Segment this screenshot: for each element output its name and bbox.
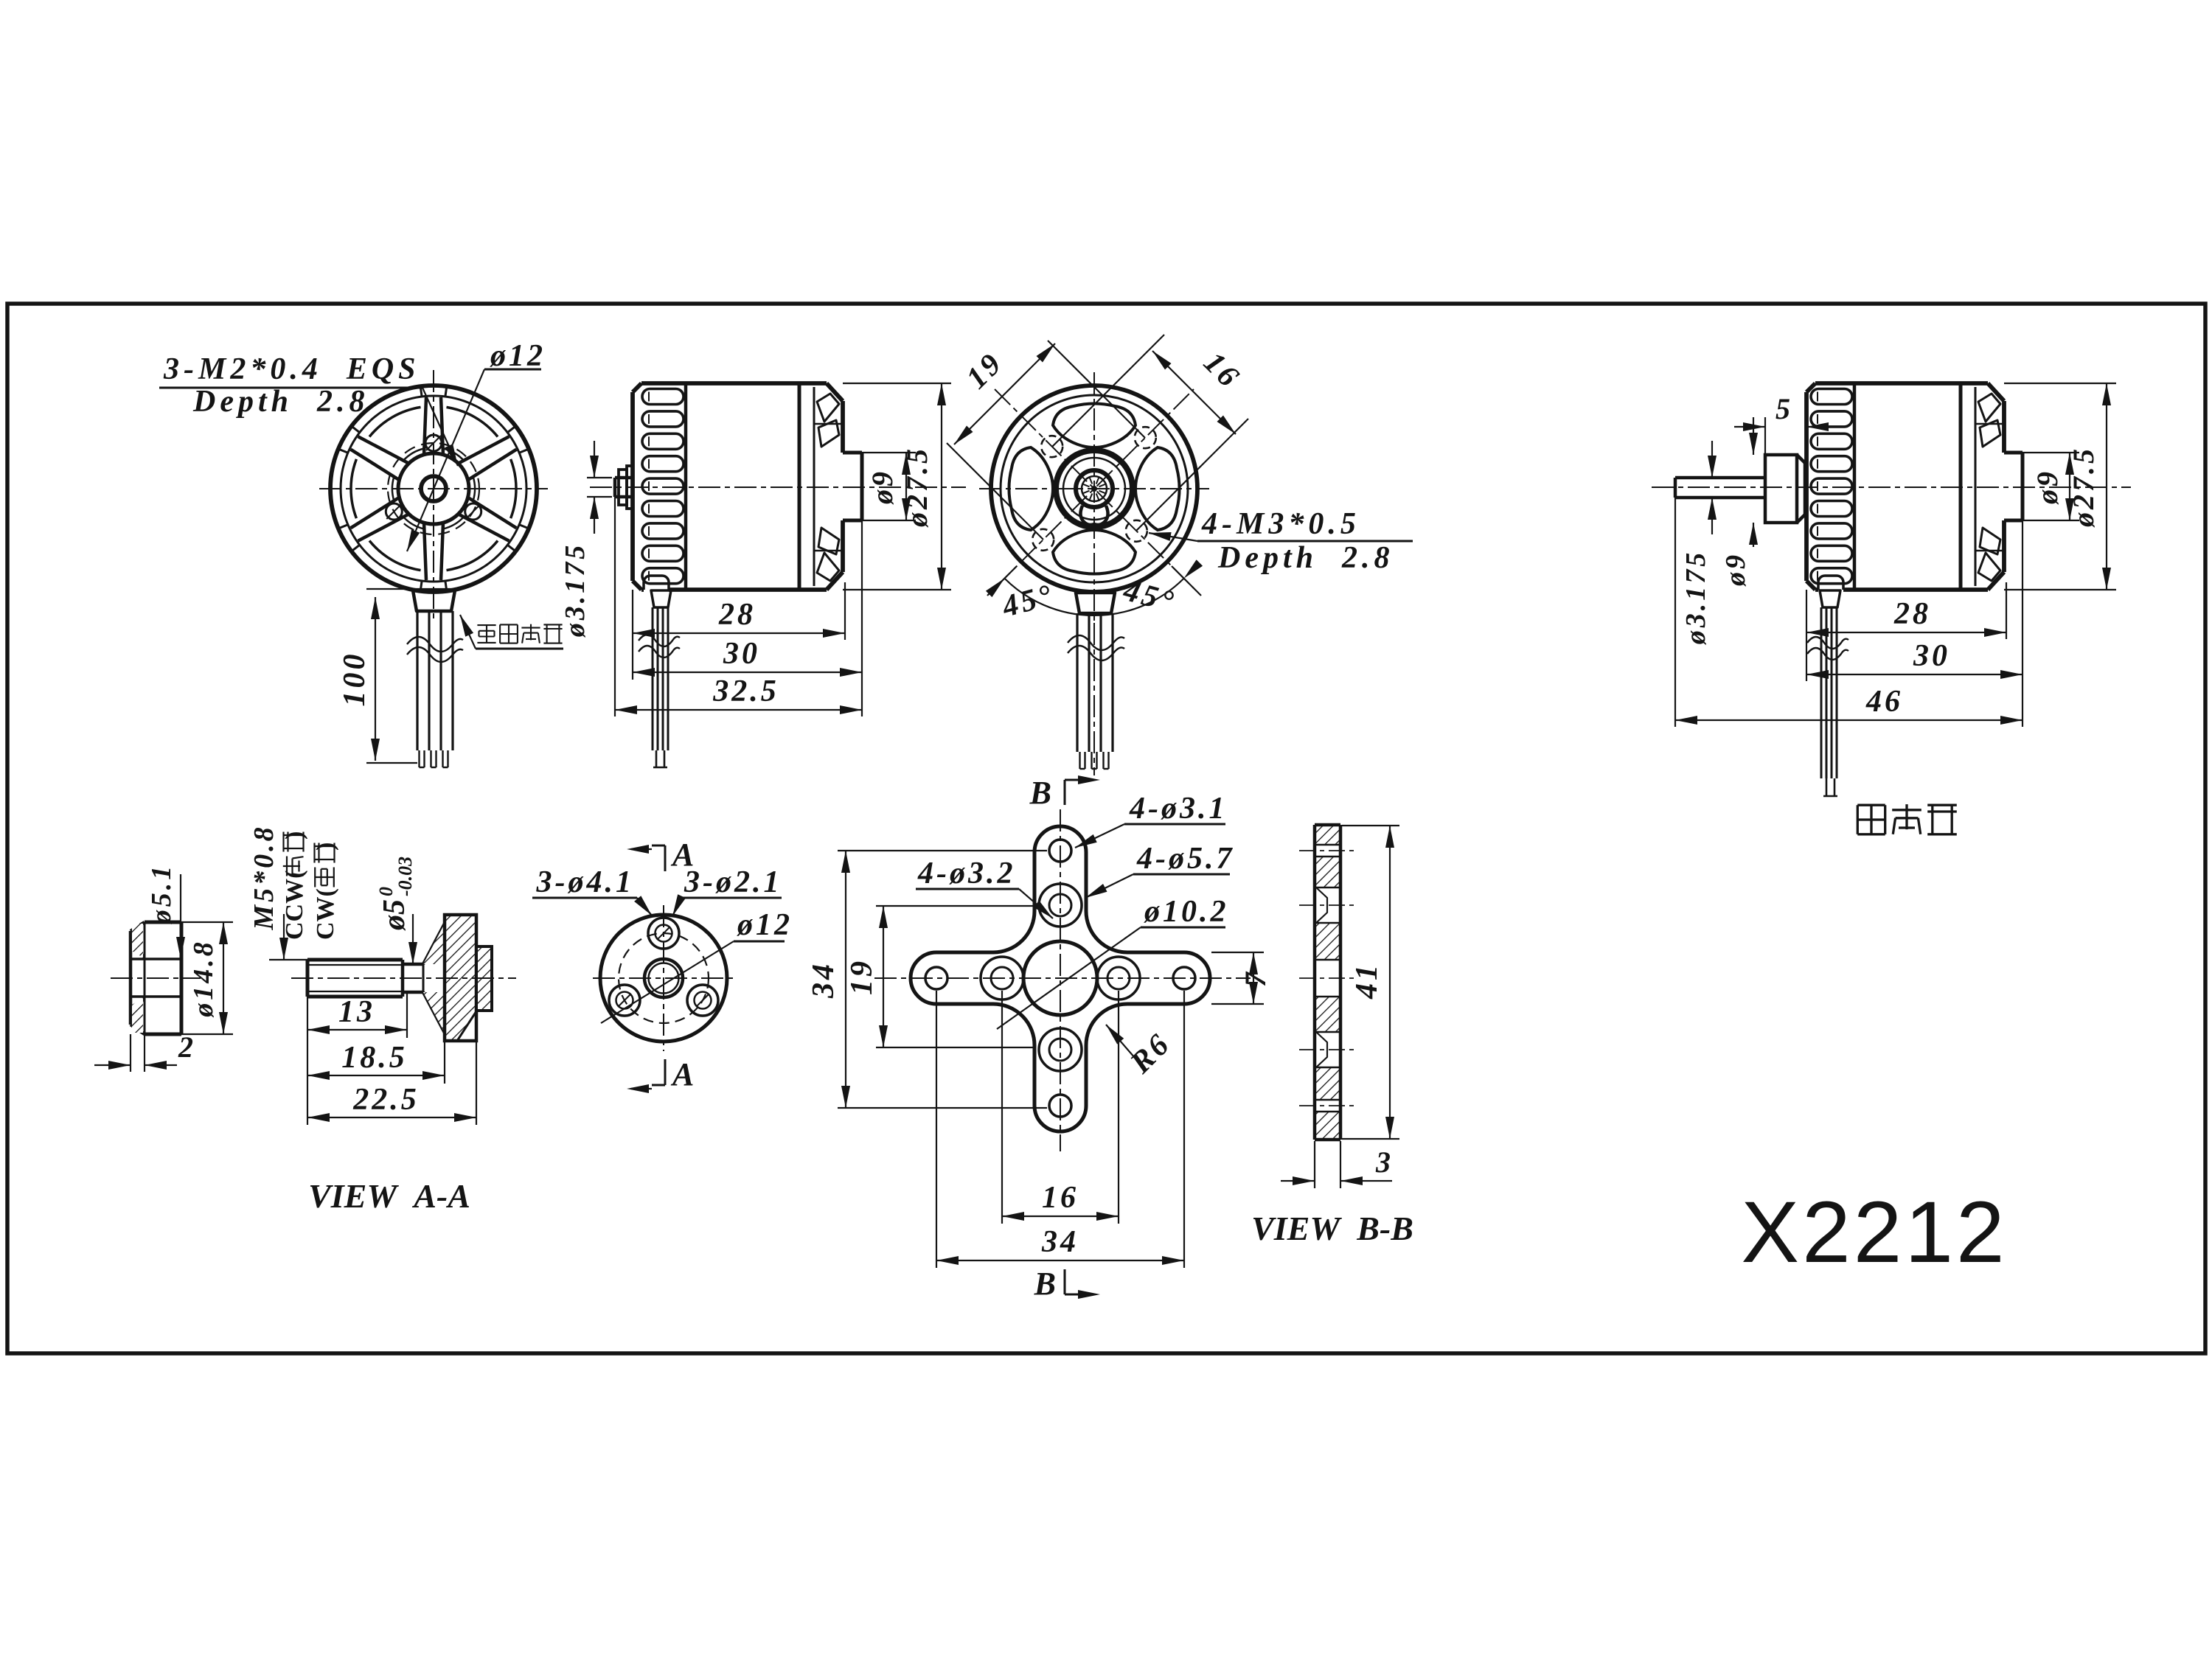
- svg-text:32.5: 32.5: [712, 674, 779, 708]
- X-mount section VIEW B-B strip: [1315, 825, 1340, 845]
- dimension diameter 14.8: [223, 922, 224, 1034]
- dimension 13 thread length: [307, 1029, 407, 1030]
- drawing border frame: [7, 304, 2205, 1353]
- side view vent slots: [642, 389, 684, 405]
- svg-text:3-ø2.1: 3-ø2.1: [684, 865, 782, 899]
- prop adapter flange face view: [600, 915, 727, 1042]
- side view rotor bell outline: [630, 392, 635, 581]
- rear view cooling openings: [1053, 404, 1135, 447]
- X-mount cross plate view: [911, 826, 1210, 1131]
- svg-text:41: 41: [1350, 962, 1384, 1000]
- dimension 7 arm width: [1211, 952, 1264, 953]
- side view center line: [590, 487, 966, 488]
- svg-text:VIEW A-A: VIEW A-A: [308, 1177, 470, 1215]
- section markers A-A: [652, 845, 665, 847]
- svg-text:19: 19: [845, 958, 879, 995]
- svg-text:ø14.8: ø14.8: [188, 939, 219, 1018]
- rear view wire bundle: [1076, 593, 1115, 613]
- dimension 5 collar length: [1764, 417, 1766, 455]
- svg-text:CCW(: CCW(: [281, 871, 308, 940]
- svg-text:ø5: ø5: [378, 899, 411, 931]
- dimension 30 rear view: [1806, 674, 2023, 675]
- dimension diameter 3.175 shaft: [587, 477, 612, 478]
- label heat-shrink sleeve (Chinese): [477, 624, 495, 626]
- svg-text:4-ø5.7: 4-ø5.7: [1136, 842, 1235, 876]
- svg-text:ø12: ø12: [490, 339, 546, 373]
- label M5*0.8 thread: [269, 959, 307, 960]
- rear view hub shaft and circlip: [1056, 450, 1133, 527]
- svg-text:CW(: CW(: [312, 888, 339, 940]
- svg-text:): ): [312, 843, 339, 851]
- front view spokes and rim slots: [441, 397, 443, 455]
- prop adapter section VIEW A-A: [307, 958, 403, 962]
- dimension diameter 5.1: [180, 874, 181, 959]
- dimension 22.5: [307, 1117, 476, 1118]
- svg-text:B: B: [1034, 1266, 1059, 1302]
- side view wire bundle: [651, 590, 671, 607]
- dimension 45 degree angles: [1004, 579, 1183, 615]
- dimension diameter 5 tolerance: [403, 963, 428, 965]
- front view center lines: [319, 488, 548, 489]
- svg-text:A: A: [670, 837, 697, 873]
- dimension 32.5: [615, 709, 862, 711]
- dimension 18.5: [307, 1075, 445, 1076]
- svg-text:Depth 2.8: Depth 2.8: [192, 385, 369, 419]
- svg-text:28: 28: [718, 598, 756, 632]
- dimension 100 wire length: [375, 597, 376, 761]
- front view rim opening arcs: [511, 459, 516, 518]
- side view rear cap heatsink: [827, 383, 843, 401]
- dimension 19 hole spacing: [1048, 341, 1145, 438]
- svg-text:3: 3: [1375, 1145, 1394, 1179]
- svg-text:4-M3*0.5: 4-M3*0.5: [1201, 507, 1360, 541]
- svg-text:ø3.175: ø3.175: [1680, 550, 1711, 646]
- dimension 34 hole spacing X-mount: [936, 991, 937, 1268]
- svg-text:ø12: ø12: [737, 908, 793, 942]
- svg-text:A: A: [670, 1056, 697, 1092]
- svg-text:ø27.5: ø27.5: [900, 446, 933, 528]
- svg-text:4-ø3.2: 4-ø3.2: [917, 857, 1016, 890]
- svg-text:5: 5: [1775, 392, 1793, 425]
- svg-text:34: 34: [807, 961, 841, 999]
- svg-text:30: 30: [723, 637, 760, 671]
- dimension 2 washer thickness: [94, 1064, 131, 1066]
- dimension 16 hole spacing X-mount: [1001, 991, 1003, 1224]
- dimension 41 plate length: [1342, 825, 1399, 826]
- dimension 19 vertical spacing: [876, 905, 1034, 907]
- svg-text:0: 0: [375, 887, 397, 896]
- svg-text:100: 100: [338, 652, 372, 707]
- rear view: motor back with mount holes: [991, 386, 1197, 592]
- dimension 28 rear view: [1806, 632, 2006, 633]
- dimension 28: [633, 632, 845, 634]
- front view 3x M2 bolt holes: [425, 435, 442, 451]
- svg-text:4-ø3.1: 4-ø3.1: [1129, 792, 1228, 826]
- dimension 30: [633, 672, 862, 673]
- dimension 3 plate thickness: [1314, 1141, 1315, 1188]
- svg-text:2: 2: [178, 1030, 196, 1064]
- svg-text:ø9: ø9: [2031, 469, 2064, 505]
- side view rear boss diameter 9: [843, 451, 862, 455]
- svg-text:ø10.2: ø10.2: [1144, 895, 1229, 929]
- dimension 16 hole spacing: [1052, 335, 1164, 447]
- svg-text:34: 34: [1041, 1225, 1079, 1259]
- svg-text:M5*0.8: M5*0.8: [248, 824, 279, 930]
- svg-text:ø3.175: ø3.175: [560, 543, 591, 638]
- svg-text:16: 16: [1042, 1181, 1079, 1215]
- dimension diameter 3.175 rear shaft: [1711, 441, 1713, 478]
- rear-shaft view bell and vent slots: [1804, 392, 1809, 581]
- svg-text:-0.03: -0.03: [394, 857, 416, 896]
- dimension diameter 9 collar: [1753, 417, 1754, 455]
- svg-text:ø27.5: ø27.5: [2067, 446, 2100, 528]
- front view hub circles and center hole: [398, 453, 469, 524]
- svg-text:7: 7: [1239, 969, 1272, 987]
- svg-text:46: 46: [1865, 685, 1903, 719]
- svg-text:30: 30: [1913, 639, 1950, 673]
- rear view 4x M3 mounting holes: [1135, 427, 1156, 448]
- svg-text:ø5.1: ø5.1: [146, 863, 177, 925]
- front view wire bundle and sleeve: [366, 588, 459, 590]
- svg-text:13: 13: [338, 995, 375, 1029]
- side view front shaft and washer: [615, 476, 633, 480]
- svg-text:Depth 2.8: Depth 2.8: [1217, 541, 1394, 575]
- svg-text:VIEW B-B: VIEW B-B: [1251, 1210, 1413, 1247]
- rear-shaft view wire bundle: [1820, 590, 1840, 607]
- svg-text:3-M2*0.4 EQS: 3-M2*0.4 EQS: [163, 352, 420, 386]
- rear shaft and prop collar: [1675, 476, 1765, 480]
- dimensions diameter 9 and 27.5: [862, 452, 916, 453]
- svg-text:): ): [281, 831, 308, 840]
- prop washer section view: [129, 931, 133, 1025]
- labels CCW CW rotation (Chinese): [281, 831, 308, 940]
- svg-text:X2212: X2212: [1741, 1184, 2007, 1281]
- svg-text:ø9: ø9: [866, 469, 899, 505]
- dimension 46 overall length: [1675, 719, 2023, 721]
- front view: motor face with 6-spoke rotor: [330, 386, 537, 592]
- svg-text:22.5: 22.5: [352, 1083, 420, 1117]
- svg-text:B: B: [1029, 775, 1054, 811]
- label rear output shaft (Chinese): [1857, 805, 1859, 834]
- svg-text:3-ø4.1: 3-ø4.1: [536, 865, 635, 899]
- svg-text:ø9: ø9: [1720, 552, 1751, 587]
- front view hub-side arcs: [473, 477, 475, 501]
- svg-text:18.5: 18.5: [341, 1041, 408, 1075]
- rear-shaft view cap heatsink and boss: [1988, 383, 2004, 401]
- svg-text:28: 28: [1893, 597, 1931, 631]
- dimensions diameter 9 and 27.5 right side: [2023, 452, 2079, 453]
- dimension 34 vertical spacing: [838, 850, 1047, 851]
